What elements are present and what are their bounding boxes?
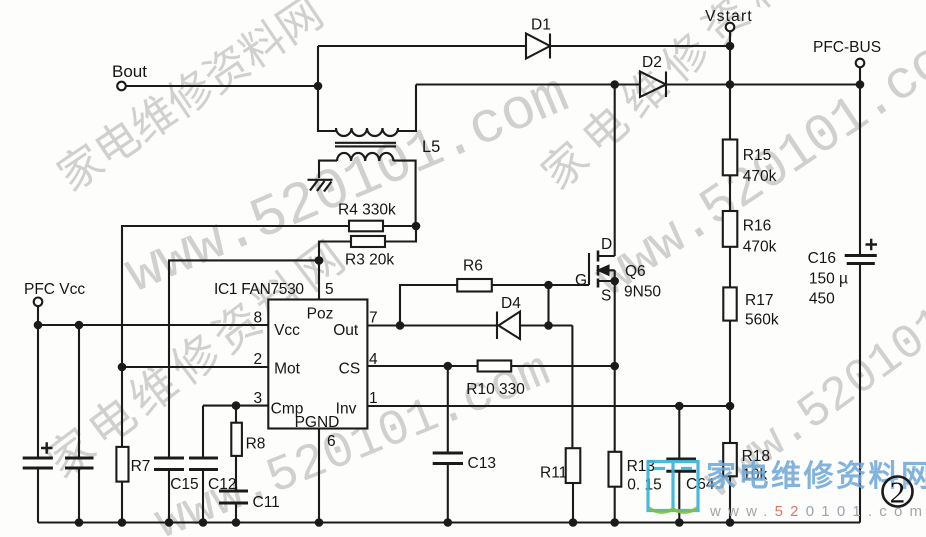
svg-text:Poz: Poz xyxy=(307,306,334,323)
wire R3 right hook xyxy=(385,226,416,242)
svg-text:IC1 FAN7530: IC1 FAN7530 xyxy=(214,281,304,298)
transistor Q6 channel segments xyxy=(597,251,600,288)
node rail C11 xyxy=(232,518,241,527)
transistor Q6 body arrow xyxy=(599,266,609,275)
resistor R6 xyxy=(457,279,492,292)
svg-text:PFC-BUS: PFC-BUS xyxy=(813,39,881,56)
resistor R4 xyxy=(349,221,383,232)
wire Out branch up to R6 xyxy=(400,285,457,326)
node C14 top xyxy=(75,321,84,330)
diode D1 xyxy=(526,34,550,59)
svg-text:C13: C13 xyxy=(468,455,496,472)
ground symbol xyxy=(308,180,333,192)
wire Bout to node A xyxy=(126,85,318,87)
wire L5 secondary left lead to ground xyxy=(319,161,337,178)
node D4 anode xyxy=(544,321,553,330)
wire L5 primary right lead up to D2 row xyxy=(398,85,416,132)
svg-text:Q6: Q6 xyxy=(625,263,646,280)
node CS/C13/R10 xyxy=(444,362,453,371)
node Vstart junction xyxy=(726,42,735,51)
capacitor C12 plates xyxy=(189,458,218,470)
wire L5 secondary right lead down to R4 node xyxy=(393,161,415,226)
svg-text:S: S xyxy=(601,288,611,305)
svg-text:150 µ: 150 µ xyxy=(809,271,848,288)
svg-text:D: D xyxy=(601,236,612,253)
svg-text:L5: L5 xyxy=(422,138,440,156)
svg-text:2: 2 xyxy=(890,475,906,510)
svg-text:C16: C16 xyxy=(808,250,836,267)
node rail C15 xyxy=(165,518,174,527)
svg-text:2: 2 xyxy=(254,351,263,368)
svg-text:R16: R16 xyxy=(743,218,771,235)
wire electrolytic cap top lead xyxy=(37,325,39,458)
capacitor C64 plates xyxy=(666,459,696,471)
wire pin 5 stem xyxy=(318,260,320,299)
wire node B row to C15 branch xyxy=(169,260,319,458)
wire D1 cathode to Vstart node xyxy=(550,45,730,47)
wire C13 bottom lead xyxy=(447,464,449,523)
wire Vcc line pin 8 xyxy=(38,324,268,326)
svg-text:Bout: Bout xyxy=(112,62,147,81)
wire R17 to Inv node xyxy=(729,321,731,406)
wire C15 bottom lead xyxy=(168,470,170,523)
node R10 right source xyxy=(610,362,619,371)
svg-text:7: 7 xyxy=(369,310,378,327)
wire Cmp line pin 3 xyxy=(203,405,268,407)
diode D2 xyxy=(640,72,666,98)
wire R4 right lead xyxy=(383,225,416,227)
wire R11 bottom lead xyxy=(572,483,574,523)
node rail R11 xyxy=(569,518,578,527)
svg-text:0. 15: 0. 15 xyxy=(627,477,661,494)
resistor R11 xyxy=(566,448,581,483)
resistor R16 xyxy=(723,211,738,247)
capacitor C16 plus xyxy=(866,239,878,251)
svg-text:470k: 470k xyxy=(743,168,777,185)
svg-text:Vcc: Vcc xyxy=(274,322,300,339)
wire Cmp drop to C12 xyxy=(202,406,204,458)
inductor L5 primary winding xyxy=(336,128,398,136)
node A Bout junction xyxy=(314,82,323,91)
svg-text:R10 330: R10 330 xyxy=(466,381,525,398)
wire PFC Vcc stem xyxy=(37,306,39,325)
capacitor C13 plates xyxy=(433,453,463,464)
capacitor C14 plates xyxy=(65,458,94,468)
wire C64 bottom lead xyxy=(678,471,680,522)
wire D4 anode segment xyxy=(520,324,572,326)
transistor Q6 gate bar xyxy=(588,253,590,285)
terminal PFC-BUS xyxy=(856,59,865,68)
svg-text:5: 5 xyxy=(325,281,334,298)
wire D2 row right segment xyxy=(666,83,860,85)
wire CS line pin 4 xyxy=(367,365,477,367)
inductor L5 secondary winding xyxy=(337,153,393,161)
wire Vstart stem xyxy=(729,32,731,47)
wire D1 row left segment xyxy=(318,45,526,47)
wire C13 drop xyxy=(447,366,449,453)
wire R3 left hook to node B xyxy=(319,242,351,261)
node R4/R3 right xyxy=(412,222,421,231)
node PFC-BUS junction xyxy=(856,80,865,89)
logo book icon xyxy=(648,462,698,511)
svg-text:R3 20k: R3 20k xyxy=(345,252,394,269)
wire R6 to gate xyxy=(492,284,589,286)
wire C16 top lead xyxy=(859,85,861,256)
wire Mot line pin 2 xyxy=(122,366,268,368)
LOGO bottom right xyxy=(648,460,926,520)
wire R8 to C11 xyxy=(235,456,237,491)
node Cmp/R8 xyxy=(232,401,241,410)
capacitor C15 plates xyxy=(154,458,184,470)
resistor R7 xyxy=(116,447,128,482)
node B R3 left xyxy=(315,256,324,265)
svg-text:D2: D2 xyxy=(642,54,662,71)
wire R4 left lead to left bus xyxy=(122,226,349,447)
wire Out line pin 7 xyxy=(367,324,497,326)
svg-text:Out: Out xyxy=(333,322,359,339)
wire C12 bottom lead xyxy=(202,470,204,523)
node Out/R6 branch xyxy=(396,321,405,330)
node gate junction xyxy=(544,281,553,290)
wire MOSFET body to source xyxy=(609,270,615,281)
diode D4 xyxy=(497,312,520,340)
wire Inv node to R18 xyxy=(729,406,731,443)
node D2 cathode xyxy=(726,80,735,89)
resistor R18 xyxy=(723,443,737,476)
node Inv/R17/R18 xyxy=(726,402,735,411)
resistor R10 xyxy=(478,361,512,372)
svg-text:G: G xyxy=(575,272,587,289)
logo book underline xyxy=(649,508,697,512)
wire R18 bottom lead xyxy=(729,476,731,522)
node source xyxy=(610,277,619,286)
svg-text:C15: C15 xyxy=(170,476,198,493)
wire R16 to R17 xyxy=(729,247,731,288)
node rail C13 xyxy=(444,518,453,527)
wire PFC-BUS stem xyxy=(859,68,861,85)
svg-text:R6: R6 xyxy=(463,258,483,275)
wire C16 bottom lead to rail xyxy=(859,264,861,523)
node drain top xyxy=(610,80,619,89)
svg-text:Vstart: Vstart xyxy=(705,8,753,25)
wire D2 row left segment xyxy=(416,83,640,85)
svg-text:R15: R15 xyxy=(743,147,771,164)
wire R13 bottom lead xyxy=(614,487,616,523)
wire electrolytic cap bottom lead to rail xyxy=(37,468,39,523)
svg-text:R11: R11 xyxy=(540,465,567,482)
node rail R7 xyxy=(118,518,127,527)
wire ground rail xyxy=(38,521,860,523)
wire R7 bottom lead xyxy=(121,482,123,523)
svg-text:PGND: PGND xyxy=(295,414,340,431)
resistor R15 xyxy=(723,140,738,176)
svg-text:1: 1 xyxy=(369,390,378,407)
svg-text:R17: R17 xyxy=(745,292,773,309)
node rail C14 xyxy=(75,518,84,527)
wire Inv line pin 1 xyxy=(367,405,730,407)
wire C64 drop xyxy=(678,406,680,459)
svg-text:D1: D1 xyxy=(531,17,551,34)
svg-text:C12: C12 xyxy=(208,476,236,493)
svg-text:R4 330k: R4 330k xyxy=(338,202,396,219)
resistor R3 xyxy=(351,236,385,247)
svg-text:Mot: Mot xyxy=(274,361,301,378)
svg-text:CS: CS xyxy=(339,361,361,378)
terminal Vstart xyxy=(726,23,735,32)
circled number 2 xyxy=(883,477,913,507)
terminal PFC Vcc xyxy=(34,298,43,307)
svg-text:C11: C11 xyxy=(253,494,280,511)
node rail R18 xyxy=(726,518,735,527)
wire Vstart node down to R15 xyxy=(729,46,731,140)
wire MOSFET source lead xyxy=(598,280,615,282)
node rail R13 xyxy=(610,518,619,527)
IC IC1 FAN7530 body xyxy=(268,300,367,429)
wire C11 bottom lead xyxy=(235,503,237,523)
capacitor electrolytic plus xyxy=(41,442,53,453)
capacitor C11 plates xyxy=(219,491,248,503)
wire MOSFET source down to R13 xyxy=(614,281,616,452)
svg-text:D4: D4 xyxy=(501,295,521,312)
svg-text:470k: 470k xyxy=(743,239,777,256)
svg-text:6: 6 xyxy=(327,433,336,450)
capacitor electrolytic plates (PFC Vcc) xyxy=(23,458,53,468)
wire R10 right segment xyxy=(511,365,615,367)
wire MOSFET drain vertical xyxy=(614,85,616,257)
svg-text:R7: R7 xyxy=(131,458,151,475)
wire gate node down to D4 node xyxy=(547,285,549,326)
resistor R8 xyxy=(231,423,242,456)
node Mot/R4 bus xyxy=(118,363,127,372)
wire cap C14 leads xyxy=(78,325,80,523)
node rail pin6 xyxy=(315,518,324,527)
resistor R17 xyxy=(723,287,736,320)
svg-text:3: 3 xyxy=(254,390,263,407)
svg-text:9N50: 9N50 xyxy=(624,284,661,301)
node rail C12 xyxy=(199,518,208,527)
svg-text:R8: R8 xyxy=(246,436,266,453)
wire MOSFET drain lead xyxy=(598,255,615,257)
resistor R13 xyxy=(609,452,622,487)
inductor L5 core xyxy=(335,143,396,147)
node Inv/C64 xyxy=(675,402,684,411)
wire node A up to D1 row xyxy=(317,46,319,86)
wire R8 top lead xyxy=(235,406,237,423)
svg-text:560k: 560k xyxy=(745,312,779,329)
svg-text:PFC Vcc: PFC Vcc xyxy=(24,281,85,298)
svg-text:450: 450 xyxy=(809,291,835,308)
terminal Bout xyxy=(117,82,126,91)
wire pin 6 stem to rail xyxy=(318,429,320,523)
svg-text:4: 4 xyxy=(369,351,378,368)
node PFC Vcc drop xyxy=(34,321,43,330)
svg-text:8: 8 xyxy=(254,310,263,327)
wire R15 to R16 xyxy=(729,175,731,211)
wire node A down to L5 primary xyxy=(318,86,336,131)
wire D4 node down to R11 xyxy=(571,326,573,449)
capacitor C16 plates xyxy=(845,256,877,264)
node rail C64 xyxy=(675,518,684,527)
